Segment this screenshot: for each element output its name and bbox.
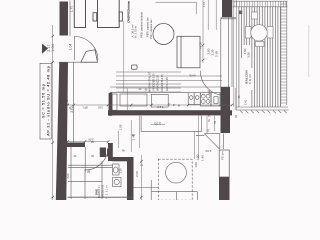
DIMENSION lines (51, 25, 233, 200)
svg-text:SC = 51.50 mp: SC = 51.50 mp (42, 83, 46, 118)
svg-text:PLF: vopsea lav.: PLF: vopsea lav. (149, 19, 153, 39)
wall bath right W6 (127, 157, 134, 200)
balcony round table (251, 25, 267, 41)
door D1 entry arc (74, 37, 98, 61)
sink bowl right (194, 93, 200, 105)
balcony table white-out (245, 12, 273, 47)
door D3 balcony arc (200, 71, 224, 95)
svg-text:PER: vopsea lav.: PER: vopsea lav. (145, 17, 149, 37)
balcony right rail (281, 1, 287, 105)
counter unit mid labeled (151, 94, 168, 107)
right side window walls (119, 0, 237, 177)
svg-text:FRIGIDER 2.50: FRIGIDER 2.50 (152, 73, 156, 91)
tv trapezoid (81, 50, 98, 63)
svg-text:5.9 m²: 5.9 m² (248, 74, 252, 84)
svg-text:BP 1: BP 1 (84, 170, 90, 173)
balcony left boundary (234, 0, 237, 110)
dim line y105 (67, 104, 232, 106)
toilet (113, 164, 120, 175)
appliance inner (214, 97, 218, 104)
svg-text:3.03: 3.03 (67, 173, 70, 178)
window top-right frame (221, 17, 232, 87)
THIN STRUCTURE LINES (59, 1, 158, 200)
stove (200, 93, 211, 106)
wall right top pier W9 (222, 0, 232, 17)
svg-text:1.04: 1.04 (51, 44, 55, 51)
svg-text:1.15: 1.15 (202, 1, 206, 7)
shower lines (68, 165, 112, 167)
TEXTS rotated (42, 1, 252, 199)
DOORS (74, 36, 224, 170)
door D4 lower window diagonal leaf (205, 134, 220, 149)
bath sink bowl (114, 179, 119, 184)
wall face line x70 (69, 1, 71, 37)
balcony chair right (267, 27, 273, 39)
wall bath corner pier W4 (108, 143, 113, 161)
svg-text:H 3.01 m: H 3.01 m (106, 185, 108, 198)
TEXTS upside down (68, 11, 241, 173)
svg-text:2.20: 2.20 (119, 168, 123, 174)
vert thin lines mid (119, 116, 140, 152)
wall right mid pier W10 (221, 87, 231, 133)
corridor face line x73.6 (73, 62, 75, 143)
bath bottom line y197 (68, 196, 134, 198)
stove burner 3 (201, 100, 205, 104)
top edge line sofa (156, 2, 197, 14)
balcon text whiteout (244, 68, 254, 90)
svg-text:2.92: 2.92 (98, 106, 103, 108)
balcony chair left (245, 27, 251, 39)
sink tap right (195, 96, 199, 100)
svg-text:AP 31 - studio SU = 42.48 mp: AP 31 - studio SU = 42.48 mp (46, 65, 50, 136)
washing machine dark blob (100, 148, 106, 158)
balcony small mark (239, 11, 242, 15)
bath face line x71 (70, 147, 72, 199)
svg-text:+4.50: +4.50 (199, 42, 203, 50)
faint fold line right (308, 25, 310, 77)
balcony right rail rungs (281, 4, 287, 103)
svg-text:PRD: parchet laminat: PRD: parchet laminat (140, 12, 144, 38)
wall bath jog W5 (113, 157, 132, 161)
bed (98, 0, 120, 28)
svg-text:GRESIE 2.43: GRESIE 2.43 (102, 184, 104, 198)
dim ext line x123.8 (123, 21, 125, 92)
balcony floor bottom edge (236, 107, 289, 113)
svg-text:PE trm: PE trm (222, 151, 225, 159)
svg-text:ARAGAZ 2.25: ARAGAZ 2.25 (156, 74, 160, 91)
wall kitchen pier W7 (109, 93, 113, 116)
svg-text:CHIUVETA 2.35: CHIUVETA 2.35 (160, 74, 164, 92)
sink double (188, 93, 194, 105)
svg-text:2.35: 2.35 (214, 51, 218, 57)
door jamb slot kitchen (112, 94, 117, 110)
bottom center dining (151, 159, 197, 200)
wall kitchen horizontal W8 (108, 110, 232, 115)
svg-text:CAMERA DE ZI + chicineta: CAMERA DE ZI + chicineta (127, 1, 131, 23)
svg-text:1.41: 1.41 (244, 99, 248, 105)
stove burner 2 (206, 94, 210, 98)
sink tap left (189, 96, 193, 100)
svg-text:1.40: 1.40 (201, 155, 205, 161)
nightstand left (93, 13, 97, 21)
balcony top balusters (234, 1, 286, 7)
svg-text:BAIE: BAIE (95, 189, 98, 195)
svg-text:1.70: 1.70 (69, 6, 73, 13)
shower wall x102 (101, 161, 103, 199)
FURNITURE top room (74, 0, 200, 69)
wall bottom right W11 (219, 177, 230, 200)
balcony top rail (233, 1, 288, 7)
armchair circle (153, 24, 174, 45)
box 3.70 room dim (141, 116, 201, 132)
counter unit left (120, 94, 147, 106)
dashed zone (158, 159, 192, 200)
cabinet dark blob (107, 149, 112, 157)
svg-text:1.04: 1.04 (69, 44, 73, 51)
bathroom fixtures (113, 164, 122, 187)
wall bath-top W3 (65, 143, 85, 148)
wardrobe (74, 0, 85, 28)
sofa armrest line (180, 36, 182, 68)
cabinets bottom (151, 180, 197, 200)
WALLS_DARK (56, 0, 232, 200)
svg-text:BP 1: BP 1 (82, 106, 88, 108)
svg-text:1.50: 1.50 (194, 162, 198, 168)
appliance (211, 93, 220, 106)
balcony bottom ticks (240, 110, 287, 113)
dim ticks (51, 35, 233, 199)
balcony chair top (252, 12, 258, 19)
counter top edge (110, 86, 230, 88)
balcony floor hatch (239, 7, 281, 107)
entry arrow (42, 44, 48, 54)
table circle bottom (166, 162, 187, 183)
svg-text:1.08: 1.08 (119, 124, 123, 130)
label box left (40, 63, 51, 139)
door D2 bath arc (85, 147, 108, 170)
BALCONY (233, 0, 288, 110)
radiator leader lines (116, 72, 222, 92)
stove burner 1 (201, 94, 205, 98)
KITCHEN counter (110, 87, 230, 110)
sink bath (113, 178, 122, 187)
parapet box (219, 150, 229, 177)
svg-text:T 2.0: T 2.0 (157, 105, 164, 109)
dim line left vertical (52, 25, 54, 200)
dim line y141.5 (67, 141, 108, 143)
wall left main W2 (56, 63, 68, 201)
door D2 bath leaf (84, 147, 86, 170)
svg-text:2.90: 2.90 (205, 149, 211, 153)
wall entry-top W1 (60, 2, 69, 36)
sofa (177, 36, 200, 68)
window lower frame (220, 134, 224, 149)
svg-text:H: 2.75 m: H: 2.75 m (134, 25, 138, 38)
nightstand right (119, 12, 122, 21)
svg-text:3.70: 3.70 (154, 121, 161, 125)
hall line y187 (134, 187, 159, 189)
door D1 entry leaf (73, 36, 75, 60)
dim ext lines top (203, 0, 216, 63)
shower divider (68, 180, 102, 182)
dim ext lines kitchen (195, 116, 215, 159)
svg-text:3.50: 3.50 (247, 52, 251, 58)
svg-text:FAIANTA 2.1: FAIANTA 2.1 (98, 184, 101, 198)
balcony chair bottom (256, 42, 265, 47)
svg-text:1.50: 1.50 (196, 154, 200, 160)
shower wall x85 (84, 169, 86, 199)
dim line x141.3 bath (140, 155, 142, 200)
stove burner 4 (206, 100, 210, 104)
corridor line y62 (59, 61, 98, 63)
svg-text:HOTA 2.35: HOTA 2.35 (165, 76, 169, 91)
3.70 underline (151, 124, 165, 126)
svg-text:2.00: 2.00 (135, 171, 139, 177)
wall item small (132, 65, 138, 69)
svg-text:NI+TE: NI+TE (189, 74, 196, 76)
toilet bowl (113, 167, 118, 173)
